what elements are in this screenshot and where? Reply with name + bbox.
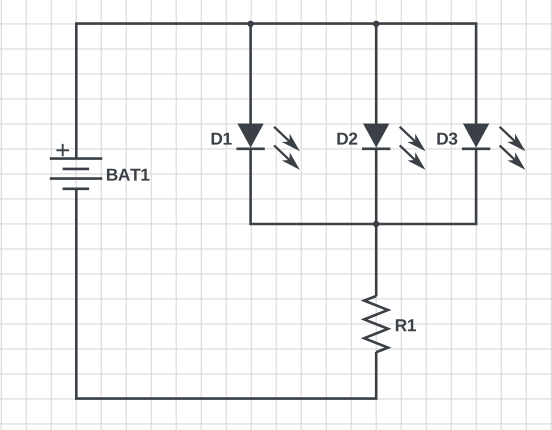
resistor R1 bbox=[364, 296, 388, 352]
battery plate 2 (short) bbox=[63, 168, 90, 171]
wire: battery positive lead up, top rail across, and D3 anode drop bbox=[76, 24, 476, 159]
label D3 bbox=[437, 133, 457, 145]
wire: D1 anode drop bbox=[249, 24, 252, 130]
battery plate 1 (long, positive) bbox=[50, 157, 103, 160]
battery plate 3 (long) bbox=[50, 177, 103, 180]
label D2 bbox=[337, 133, 357, 145]
label BAT1 bbox=[107, 169, 149, 181]
LED D3 bbox=[462, 123, 529, 174]
wire: D2 cathode drop bbox=[375, 149, 378, 224]
label D1 bbox=[212, 133, 232, 145]
LED D2 bbox=[362, 123, 429, 174]
LED D1 bbox=[236, 123, 303, 174]
label R1 bbox=[396, 319, 416, 331]
wire: cathode bus down to R1 top bbox=[375, 224, 378, 296]
battery BAT1 bbox=[50, 144, 103, 189]
battery plate 4 (short, negative) bbox=[63, 188, 90, 191]
junction node: top rail / D1 anode bbox=[247, 21, 253, 27]
junction node: cathode bus / R1 branch bbox=[373, 221, 379, 227]
battery plus sign bbox=[56, 144, 69, 156]
wire: D2 anode drop bbox=[375, 24, 378, 130]
junction node: top rail / D2 anode bbox=[373, 21, 379, 27]
wire: R1 bottom lead, bottom rail, battery negative lead bbox=[76, 189, 376, 399]
wire: D1 cathode drop, cathode bus, D3 cathode drop bbox=[251, 149, 477, 224]
